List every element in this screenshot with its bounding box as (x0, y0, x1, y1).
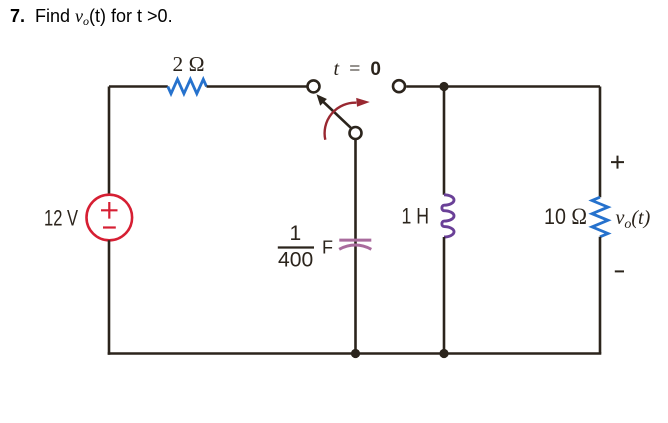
wire: left branch vertical (below source) (108, 240, 111, 354)
switch right terminal (open circle) (393, 80, 405, 92)
junction node (bottom of capacitor branch) (351, 349, 360, 358)
junction node (bottom of inductor branch) (439, 349, 448, 358)
svg-text:vo(t): vo(t) (616, 207, 651, 232)
resistor R 10-ohm (blue zigzag, vertical) (592, 197, 608, 237)
svg-text:t = 0: t = 0 (334, 58, 384, 80)
wire: top-left horizontal (source top to 2-ohm resistor) (109, 85, 168, 88)
wire: capacitor branch upper (switch pivot down to capacitor) (354, 140, 357, 240)
svg-text:400: 400 (278, 249, 313, 272)
wire: inductor branch lower (443, 237, 446, 354)
wire: bottom horizontal (108, 352, 602, 355)
switch motion arc (dark red, arrowhead pointing right) (325, 103, 357, 140)
svg-text:10 Ω: 10 Ω (544, 204, 587, 230)
title: problem statement (10, 6, 173, 29)
wire: inductor branch upper (443, 88, 446, 195)
switch pivot terminal (open circle, on capacitor branch) (350, 127, 362, 139)
polarity minus sign (615, 270, 624, 272)
wire: right branch vertical lower (599, 237, 602, 354)
wire: capacitor branch lower (354, 240, 357, 354)
wire: left branch vertical (top segment above source) (108, 87, 111, 195)
svg-text:1: 1 (290, 222, 302, 245)
svg-text:2 Ω: 2 Ω (173, 52, 205, 76)
wire: resistor to switch left terminal (207, 85, 308, 88)
svg-text:1 H: 1 H (402, 204, 430, 229)
svg-text:12 V: 12 V (44, 206, 78, 231)
voltage source V1 12V (red circle with plus minus) (87, 195, 133, 241)
resistor R 2-ohm (blue zigzag, horizontal) (168, 79, 207, 93)
switch arm with arrowhead pointing to left terminal (324, 102, 351, 128)
switch left terminal (open circle) (308, 80, 320, 92)
wire: right branch vertical upper (599, 87, 602, 198)
svg-text:F: F (322, 237, 333, 257)
wire: switch right terminal to top-right corner (406, 85, 600, 88)
inductor L 1H (purple coil) (442, 195, 454, 237)
capacitor C 1/400 F (pink plates) (339, 239, 371, 242)
polarity plus sign (611, 156, 624, 169)
junction node (top of inductor branch) (439, 82, 448, 91)
